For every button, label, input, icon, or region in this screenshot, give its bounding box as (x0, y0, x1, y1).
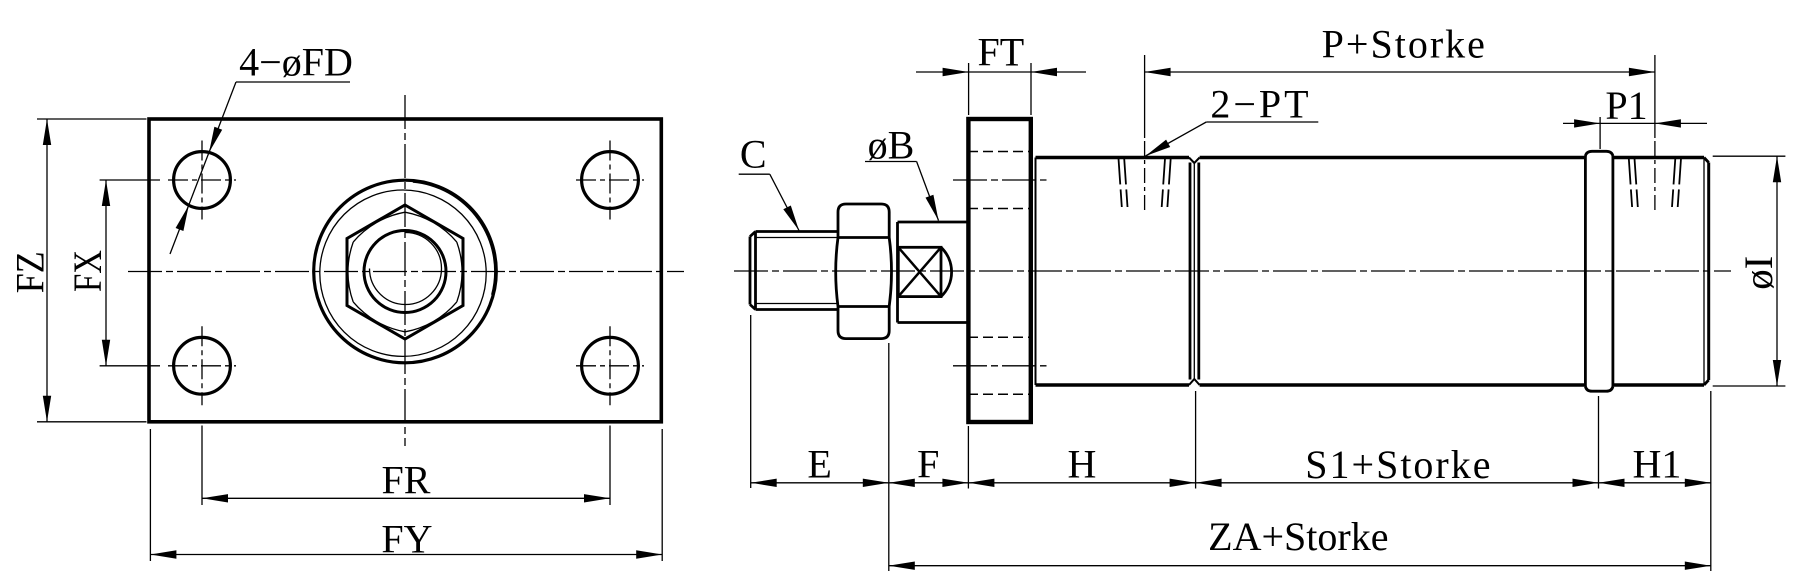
svg-text:FR: FR (382, 458, 431, 503)
dimension P1 extension line (1599, 117, 1601, 149)
front flange outline (968, 119, 1030, 422)
dimension FZ extension lines (37, 118, 147, 120)
dimension FR line (202, 497, 610, 499)
bolt hole bottom-left (174, 337, 231, 394)
label 4-oFD leader line (170, 82, 236, 254)
label 4-oFD underline (236, 81, 350, 83)
rear cap chamfer line (1703, 159, 1705, 384)
svg-text:FY: FY (381, 517, 432, 562)
dimension oI extension lines (1713, 155, 1786, 157)
label 4-oFD arrowhead upper (209, 127, 222, 153)
svg-text:FZ: FZ (8, 251, 53, 293)
svg-text:P+Storke: P+Storke (1322, 22, 1487, 67)
dimension FY extension lines (149, 429, 151, 561)
plate horizontal centerline (128, 271, 684, 273)
svg-text:2−PT: 2−PT (1210, 82, 1311, 127)
hexagon chamfer arcs (348, 212, 462, 332)
dimension F line (889, 482, 969, 484)
label C leader (739, 173, 770, 175)
svg-text:øB: øB (868, 123, 915, 168)
FX extension lines (100, 179, 160, 181)
rear port taper thread lines (1629, 159, 1681, 208)
svg-text:øI: øI (1736, 256, 1781, 290)
cylinder head left edge (1035, 158, 1037, 386)
dimension FT extension lines (968, 63, 970, 115)
svg-text:C: C (740, 132, 767, 177)
front port taper thread lines (1119, 159, 1171, 208)
joint V notches (1189, 158, 1200, 386)
dimension FY line (150, 554, 662, 556)
cylinder head outline (1036, 158, 1190, 386)
dimension FZ line (46, 119, 48, 422)
piston rod threaded end (750, 232, 838, 310)
label 2-PT leader (1206, 121, 1318, 123)
rod thread outer circle (364, 231, 446, 313)
rod nut hexagon (347, 205, 463, 339)
rear cap chamfer corners (1704, 158, 1709, 386)
svg-text:H: H (1068, 442, 1097, 487)
hole bottom-right centerlines (576, 365, 644, 367)
svg-text:F: F (917, 442, 939, 487)
plate vertical centerline (404, 95, 406, 446)
rear cap right edge (1707, 163, 1710, 381)
bolt hole top-left (174, 152, 231, 209)
rod hex nut (836, 204, 892, 339)
svg-text:FT: FT (977, 30, 1024, 75)
boss chamfer thin circle (eccentric) (320, 190, 486, 356)
hole bottom-left centerlines (168, 365, 236, 367)
svg-text:S1+Storke: S1+Storke (1305, 442, 1492, 487)
bolt hole top-right (582, 152, 639, 209)
dimension FT line (916, 71, 1086, 73)
rod thread root lines (757, 237, 839, 239)
dimension P1 line (1563, 122, 1707, 124)
rear port axis (1654, 55, 1656, 138)
dimension ZA+Storke line (889, 565, 1711, 567)
label oB leader (865, 161, 917, 163)
dimension P+Storke line (1145, 71, 1655, 73)
svg-text:FX: FX (65, 250, 110, 292)
svg-text:E: E (807, 442, 831, 487)
bottom extension lines (750, 315, 752, 488)
wrench flats cross diagonals (898, 247, 941, 296)
svg-text:H1: H1 (1633, 442, 1682, 487)
central boss outer circle (314, 180, 497, 363)
dimension FR extension lines (201, 426, 203, 506)
rear weld ring (1584, 156, 1587, 387)
svg-text:4−øFD: 4−øFD (239, 40, 353, 85)
dimension E line (751, 482, 889, 484)
label 4-oFD arrowhead lower (176, 205, 189, 231)
rod boss section (oB) (898, 222, 969, 323)
main axis centerline (734, 270, 1731, 272)
front port axis (1144, 55, 1146, 138)
boss chamfer arc near rim (413, 182, 495, 295)
dimension FX line (105, 180, 107, 366)
dimension S1+Storke line (1196, 482, 1599, 484)
bolt hole bottom-right (582, 337, 639, 394)
rear cap outline (1613, 158, 1704, 386)
svg-text:ZA+Storke: ZA+Storke (1208, 514, 1388, 559)
flange bolt hole centerlines (953, 179, 1047, 181)
rod curved surface arc (941, 247, 952, 296)
dimension H line (968, 482, 1195, 484)
flange plate outline (149, 119, 661, 422)
wrench flats square (898, 247, 941, 296)
svg-text:P1: P1 (1605, 83, 1647, 128)
nut face divider lines (838, 236, 889, 239)
flange hidden hole lines (968, 151, 1031, 153)
dimension H1 line (1599, 482, 1711, 484)
cylinder tube outline (1200, 158, 1586, 386)
head/tube joint lines (1189, 163, 1192, 380)
dimension oI line (1776, 156, 1778, 386)
rod thread inner thin arc (370, 233, 442, 305)
hole top-left centerlines (168, 179, 236, 181)
hole top-right centerlines (576, 179, 644, 181)
